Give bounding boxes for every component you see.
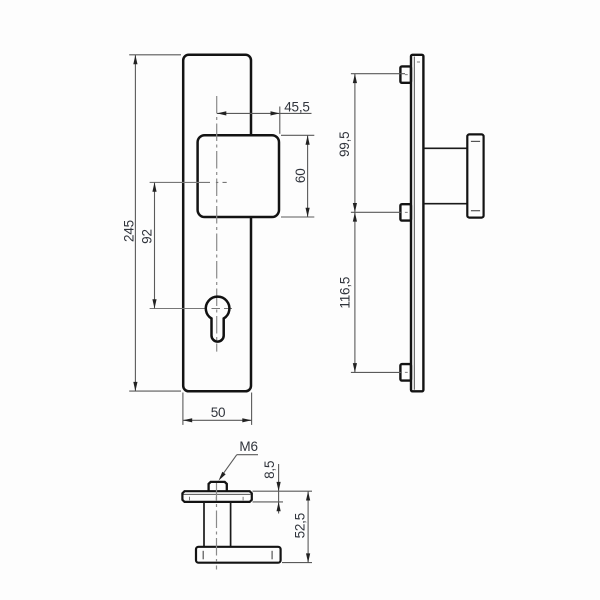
dimension 45,5 extension line right <box>279 107 281 134</box>
dimension 245 bottom arrow <box>133 382 137 391</box>
side view knob head top edge mark <box>471 140 480 142</box>
dimension 60 bottom arrow <box>306 208 310 217</box>
svg-text:50: 50 <box>211 405 226 420</box>
svg-text:245: 245 <box>122 220 137 242</box>
svg-text:116,5: 116,5 <box>337 277 352 309</box>
M6 leader shelf <box>237 454 258 456</box>
bottom view plate left hole mark <box>189 497 191 501</box>
side view plate top hole mark <box>417 61 420 63</box>
dimension chain middle extension line <box>351 211 401 213</box>
dimension 99,5 bottom arrow <box>353 203 357 212</box>
side view knob stem top line <box>424 147 468 149</box>
bottom view M6 screw head <box>209 482 227 491</box>
side view bottom screw boss <box>400 364 411 381</box>
side view bottom boss center mark <box>405 371 408 373</box>
dimension 52,5 top arrow <box>306 491 310 500</box>
dimension 50 right arrow <box>242 418 251 422</box>
dimension 8,5 top arrow <box>277 482 281 491</box>
dimension 45,5 left arrow <box>217 111 226 115</box>
front view backplate outline <box>183 55 251 392</box>
dimension 45,5 right arrow <box>271 111 280 115</box>
svg-text:M6: M6 <box>239 439 257 454</box>
dimension 60 bottom extension line <box>281 216 314 218</box>
side view knob head bottom edge mark <box>471 210 480 212</box>
bottom view plate right hole mark <box>242 497 244 501</box>
dimension 52,5 line <box>307 491 309 563</box>
bottom view knob head <box>196 547 281 563</box>
dimension 99,5 top arrow <box>353 74 357 83</box>
dimension 50 left arrow <box>183 418 192 422</box>
front view square handle boss <box>198 135 279 217</box>
bottom view plate center hole mark <box>215 497 217 501</box>
dimension 245 bottom extension line <box>129 390 181 392</box>
side view top screw boss <box>400 66 411 82</box>
svg-text:52,5: 52,5 <box>292 513 307 538</box>
dimension 8,5 line <box>278 464 280 514</box>
front view cylinder axis horizontal centerline <box>150 308 232 310</box>
dimension 92 bottom arrow <box>152 299 156 308</box>
dimension 245 line <box>134 55 136 391</box>
dimension 245 top arrow <box>133 55 137 64</box>
side view knob head <box>467 134 483 217</box>
side view top boss center mark <box>405 74 408 76</box>
dimension 60 top extension line <box>281 134 314 136</box>
dimension 116,5 top arrow <box>353 212 357 221</box>
dimension 116,5 bottom arrow <box>353 363 357 372</box>
dimension 116,5 bottom extension line <box>351 371 401 373</box>
dimension 50 left extension line <box>182 393 184 425</box>
front view vertical centerline <box>216 96 218 352</box>
dimension 92 line <box>154 182 156 308</box>
keyhole profile cylinder outline <box>206 297 230 342</box>
M6 leader line <box>220 455 237 478</box>
svg-text:8,5: 8,5 <box>262 461 277 479</box>
bottom view vertical centerline <box>216 483 218 570</box>
dimension 52,5 top extension line <box>253 490 313 492</box>
dimension 8,5 bottom arrow <box>277 502 281 511</box>
svg-text:45,5: 45,5 <box>284 99 309 114</box>
bottom view knob stem right line <box>230 502 232 547</box>
M6 leader arrow <box>219 472 226 481</box>
dimension 50 right extension line <box>251 393 253 425</box>
dimension 52,5 bottom extension line <box>282 562 312 564</box>
bottom view plate section <box>182 491 251 502</box>
bottom view knob stem left line <box>203 502 205 547</box>
front view handle axis horizontal centerline <box>150 181 227 183</box>
side view plate inner face line <box>413 57 415 390</box>
dimension 92 top arrow <box>152 182 156 191</box>
bottom view knob head right edge mark <box>271 551 273 560</box>
dimension 245 top extension line <box>129 54 181 56</box>
dimension 60 top arrow <box>306 135 310 144</box>
side view plate outline <box>411 55 423 392</box>
side view middle boss center mark <box>405 211 408 213</box>
svg-text:99,5: 99,5 <box>337 132 352 157</box>
bottom view plate face line <box>184 493 251 495</box>
bottom view knob head left edge mark <box>202 551 204 560</box>
dimension 52,5 bottom arrow <box>306 553 310 562</box>
side view knob stem bottom line <box>424 203 468 205</box>
dimension 99,5 top extension line <box>351 73 405 75</box>
dimension 50 line <box>183 419 252 421</box>
dimension 8,5 plate bottom extension line <box>253 501 284 503</box>
side view middle screw boss <box>400 204 411 220</box>
dimension 45,5 line with shelf <box>217 112 312 114</box>
svg-text:92: 92 <box>139 229 154 244</box>
svg-text:60: 60 <box>293 168 308 183</box>
dimension 60 line <box>307 135 309 217</box>
dimension chain line <box>354 74 356 373</box>
